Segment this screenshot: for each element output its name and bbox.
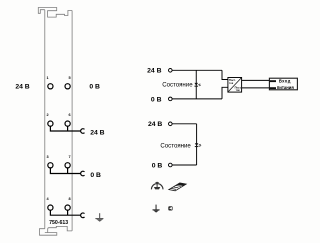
wire DC-DC to power input upper (242, 79, 270, 81)
terminal contact 1 (48, 84, 53, 89)
wire status vertical top (195, 70, 197, 99)
svg-text:Состояние: Состояние (162, 82, 193, 89)
earth arrow at row4 (95, 213, 103, 222)
wire row2 to 24V socket (50, 126, 80, 131)
module right edge wire (71, 11, 73, 231)
node circle 0V lower (169, 163, 173, 167)
wire row3 to 0V socket (50, 168, 80, 174)
module 750-613 housing top contour (38, 8, 72, 18)
node circle 24V lower (169, 122, 173, 126)
wire 0V lower (172, 164, 197, 166)
LED indicator top (194, 83, 200, 87)
socket arc row2 (81, 129, 85, 134)
svg-text:24 В: 24 В (147, 68, 161, 75)
wire bracket to DC-DC (222, 70, 228, 99)
terminal contact 7 (65, 163, 70, 168)
svg-text:ток: ток (236, 89, 241, 92)
terminal contact 5 (65, 84, 70, 89)
svg-text:24 В: 24 В (148, 121, 162, 128)
svg-text:питания: питания (277, 85, 295, 90)
icon screw head (168, 206, 172, 210)
power input box (269, 78, 297, 90)
node circle 0V top (169, 97, 173, 101)
wire status vertical lower (196, 124, 198, 165)
LED indicator lower (195, 143, 201, 147)
pin block lower (269, 87, 276, 89)
terminal contact 3 (48, 163, 53, 168)
svg-text:Вход: Вход (279, 79, 291, 84)
terminal contact 2 (48, 121, 53, 126)
svg-text:3: 3 (47, 155, 49, 159)
svg-text:8: 8 (69, 197, 71, 201)
wire 0V top (172, 98, 222, 100)
svg-text:0 В: 0 В (151, 96, 162, 103)
wire row4 to earth socket (50, 210, 80, 215)
node circle 24V top (169, 69, 173, 73)
svg-text:24 В: 24 В (90, 130, 104, 137)
svg-text:0 В: 0 В (89, 84, 100, 91)
svg-text:1: 1 (47, 76, 49, 80)
svg-text:5: 5 (69, 76, 71, 80)
svg-text:0 В: 0 В (152, 162, 163, 169)
terminal contact 6 (65, 121, 70, 126)
svg-text:7: 7 (69, 155, 71, 159)
socket arc row4 (81, 213, 85, 218)
DC-DC converter U1 (228, 78, 242, 93)
svg-text:Состояние: Состояние (160, 143, 191, 150)
terminal contact 4 (48, 205, 53, 210)
earth arrow symbol (153, 205, 160, 213)
svg-text:ток: ток (229, 82, 234, 85)
svg-text:24 В: 24 В (15, 84, 29, 91)
svg-text:2: 2 (47, 113, 49, 117)
terminal contact 8 (65, 205, 70, 210)
pin block upper (269, 80, 276, 82)
module bottom foot contour (40, 229, 57, 236)
svg-text:750-613: 750-613 (49, 220, 68, 226)
svg-text:0 В: 0 В (90, 172, 101, 179)
module bottom inner contour (48, 226, 72, 232)
icon screwdriver actuation (151, 182, 163, 190)
wire DC-DC to power input lower (242, 87, 270, 89)
module left edge wire (44, 10, 46, 229)
wire 24V top (172, 69, 222, 71)
svg-text:6: 6 (69, 113, 71, 117)
icon marking wedge (169, 183, 186, 191)
wire 24V lower (172, 123, 197, 125)
socket arc row3 (81, 171, 85, 176)
